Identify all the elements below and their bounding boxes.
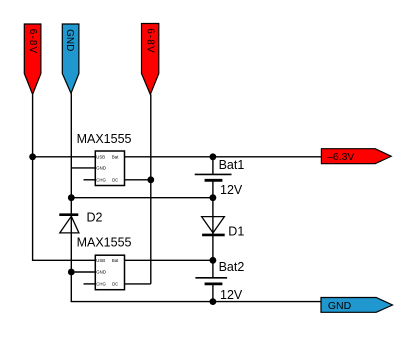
diode D2: [59, 215, 79, 233]
wire H9 U2 GND pin: [71, 271, 95, 273]
wire V2 GND input rail down: [70, 93, 72, 301]
svg-text:6-8V: 6-8V: [144, 28, 155, 54]
wire H3 U1 GND pin: [71, 167, 95, 169]
svg-text:DC: DC: [112, 177, 118, 182]
svg-text:–6.3V: –6.3V: [327, 151, 354, 163]
connector 6-8V input 1: [24, 24, 41, 94]
junction dot at Bat1 bottom node: [210, 194, 217, 201]
battery Bat2 bottom plate: [205, 282, 223, 285]
svg-text:Bat1: Bat1: [219, 158, 245, 172]
wire H6 middle node row: [71, 197, 213, 199]
svg-text:GND: GND: [328, 300, 352, 312]
wire V4 battery column segment c: [212, 235, 214, 278]
wire H8 U2 Bat pin to battery column: [125, 259, 213, 261]
svg-text:USB: USB: [96, 155, 105, 160]
svg-text:Bat2: Bat2: [219, 260, 245, 274]
junction dot at U1 USB node: [29, 153, 36, 160]
wire H2 U1 Bat pin to -6.3V connector: [125, 156, 322, 158]
op-amp U2 MAX1555 charger IC box: [95, 255, 124, 290]
battery Bat2 top plate: [195, 277, 227, 279]
junction dot at U2 GND node: [68, 269, 75, 276]
svg-text:6-8V: 6-8V: [27, 29, 38, 55]
svg-text:CHG: CHG: [96, 177, 106, 182]
wire V1 from connector 6-8V #1 down then right to U1 USB: [33, 94, 96, 260]
wire V3 from connector 6-8V #2 down: [150, 94, 152, 284]
wire H11 U2 DC pin to V3: [125, 283, 151, 285]
wire V4 battery column segment b: [212, 180, 214, 235]
svg-text:MAX1555: MAX1555: [77, 236, 132, 250]
wire H12 bottom GND to output connector: [71, 301, 322, 303]
svg-text:Bat: Bat: [112, 258, 119, 263]
connector 6-8V input 2: [142, 24, 159, 95]
junction dot at GND rail middle node: [68, 194, 75, 201]
junction dot at Bat2 bottom node: [210, 298, 217, 305]
junction dot at U1 DC node: [147, 176, 154, 183]
svg-text:GND: GND: [64, 29, 75, 51]
svg-text:12V: 12V: [220, 288, 243, 302]
op-amp U1 MAX1555 charger IC box: [95, 151, 124, 186]
svg-text:Bat: Bat: [112, 155, 119, 160]
svg-text:12V: 12V: [220, 183, 243, 197]
svg-text:DC: DC: [112, 281, 118, 286]
wire V4 battery column segment a: [212, 157, 214, 175]
wire H5 U1 DC pin to V3: [125, 179, 151, 181]
junction dot at Bat1 top node: [210, 153, 217, 160]
connector GND output: [321, 298, 393, 313]
wire V4 battery column segment d: [212, 284, 214, 302]
svg-text:D2: D2: [87, 211, 103, 225]
svg-text:D1: D1: [228, 224, 244, 238]
connector GND input: [62, 24, 79, 93]
wire H1 U1 USB pin to left rail: [33, 156, 96, 158]
connector -6.3V output: [321, 149, 391, 164]
svg-text:MAX1555: MAX1555: [77, 132, 132, 146]
diode D1: [202, 217, 225, 235]
wire H4 U1 CHG stub: [84, 179, 96, 181]
wire H10 U2 CHG stub: [84, 283, 96, 285]
battery Bat1 bottom plate: [205, 179, 223, 182]
svg-text:GND: GND: [96, 166, 106, 171]
svg-text:GND: GND: [96, 270, 106, 275]
svg-text:USB: USB: [96, 258, 105, 263]
battery Bat1 top plate: [195, 173, 232, 175]
junction dot at Bat2 top node: [210, 257, 217, 264]
svg-text:CHG: CHG: [96, 281, 106, 286]
